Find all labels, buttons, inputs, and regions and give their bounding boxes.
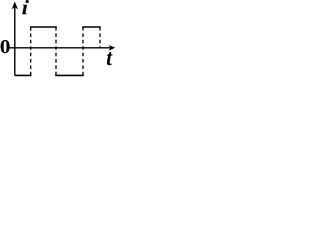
t axis arrowhead <box>108 45 115 51</box>
dashed transition line 1 <box>30 27 32 75</box>
waveform negative segment 2 (solid) <box>55 74 84 76</box>
dashed transition line 2 <box>55 27 57 75</box>
waveform positive segment 2 top (solid) <box>82 26 101 28</box>
i axis (vertical axis line) <box>14 5 16 76</box>
label 0 <box>1 40 10 53</box>
waveform positive segment 1 top (solid) <box>30 26 57 28</box>
waveform negative segment 1 (solid, from i axis to first transition) <box>15 74 32 76</box>
label t <box>107 52 113 65</box>
dashed transition line 3 <box>82 27 84 75</box>
dashed transition line 4 (stops at t axis) <box>99 27 101 48</box>
label i <box>22 0 29 14</box>
t axis (horizontal axis line) <box>10 47 112 49</box>
i axis arrowhead <box>12 2 18 10</box>
